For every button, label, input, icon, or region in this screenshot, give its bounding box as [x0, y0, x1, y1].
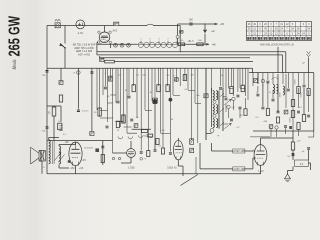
resistor R21	[157, 85, 160, 92]
wire HT rail upper	[212, 150, 253, 152]
svg-text:µF: µF	[302, 63, 305, 65]
wire comb of drops	[97, 68, 248, 153]
wire bus line 3	[114, 61, 253, 63]
capacitor C33	[154, 150, 157, 151]
sprinkle value label 13	[269, 92, 271, 94]
svg-text:500: 500	[198, 40, 202, 42]
wire IFT inner rail	[211, 88, 213, 127]
tube V1 mixer AK2	[99, 32, 110, 43]
pin circle V6 upper	[253, 150, 255, 152]
capacitor C43 dark	[289, 126, 292, 129]
wire tube V1 top stub	[104, 26, 106, 33]
wire mid link 1	[115, 120, 123, 122]
wire lower right link	[250, 128, 314, 137]
resistor R16	[230, 87, 233, 94]
label +4B lower	[211, 43, 216, 46]
ground symbol	[285, 174, 291, 182]
svg-text:30: 30	[107, 96, 110, 98]
wire det mid vertical	[204, 24, 206, 44]
switch S2 contact bump	[146, 24, 155, 26]
resistor R12	[297, 87, 300, 94]
svg-text:+50: +50	[65, 142, 70, 144]
coil L5 IFT1 winding b1	[213, 105, 215, 114]
wire right link lower	[253, 130, 314, 132]
terminal circle right	[261, 79, 265, 83]
label tube V5	[167, 167, 177, 170]
svg-text:0,1: 0,1	[136, 75, 140, 77]
pin circle V6 lower	[253, 157, 255, 159]
wire R5 stubs	[53, 106, 55, 141]
label R5	[48, 113, 51, 115]
svg-text:Mende: Mende	[13, 59, 18, 70]
resistor R24	[183, 75, 186, 81]
svg-text:AD7 +4 52: AD7 +4 52	[78, 54, 90, 57]
svg-text:L·V2: L·V2	[258, 170, 264, 173]
wire V6 top to PSU	[261, 131, 294, 142]
capacitor C4 on left rail	[46, 71, 49, 73]
component K5	[134, 124, 138, 128]
label C24	[105, 73, 107, 75]
IFT junction circle upper	[213, 100, 216, 103]
capacitor C44	[106, 126, 109, 128]
resistor R2a	[100, 58, 104, 61]
wire lower-left bus	[47, 140, 113, 142]
sprinkle value label 16	[161, 130, 165, 132]
wire x200 vertical	[199, 143, 201, 169]
junction dot b	[169, 98, 172, 101]
coil L7 choke	[283, 86, 285, 95]
junction electrolytic dot	[169, 98, 173, 102]
resistor R28	[161, 148, 164, 154]
transformer adjust arrows	[55, 153, 65, 163]
resistor R19	[98, 108, 101, 116]
label mid cap2	[158, 146, 162, 148]
label PSU value	[287, 156, 291, 158]
IFT core lines	[218, 91, 219, 129]
output transformer T1 primary	[59, 146, 61, 164]
wire bottom bus	[47, 173, 261, 175]
capacitor block C30	[174, 78, 178, 81]
label +C5	[82, 160, 87, 162]
capacitor C35 PSU	[307, 148, 310, 149]
wire table drop	[277, 47, 279, 73]
wire tube V1 to bus corner	[97, 43, 111, 52]
label R8 400	[180, 40, 184, 42]
wire x91 branch	[91, 68, 93, 131]
capacitor C36 x92	[90, 72, 93, 73]
svg-text:265 GW: 265 GW	[7, 16, 24, 57]
svg-text:1Pk: 1Pk	[42, 75, 47, 77]
wire x196 bottom	[195, 157, 197, 174]
resistor R37	[297, 123, 300, 130]
tube V4 output pentode	[69, 142, 82, 166]
svg-text:1M: 1M	[149, 92, 152, 94]
wire right rail	[313, 73, 315, 131]
wire V4 bottom stub	[75, 166, 77, 174]
resistor R20	[132, 85, 135, 92]
sprinkle value label 10	[217, 135, 220, 137]
svg-text:µF: µF	[302, 151, 305, 153]
svg-text:1000: 1000	[280, 92, 282, 98]
label R19	[94, 112, 97, 114]
capacitor C45	[239, 107, 242, 109]
svg-text:25: 25	[117, 130, 120, 132]
wire mains antenna stub	[308, 58, 310, 73]
svg-text:10k: 10k	[42, 131, 46, 133]
capacitor C42	[284, 126, 287, 127]
resistor R9 on lower rail	[197, 43, 203, 46]
coil L2 oscillator chain	[138, 42, 178, 47]
pin terminal circle b	[118, 157, 121, 160]
label mid 0,1	[136, 75, 140, 77]
resistor R29 PSU	[291, 142, 294, 150]
capacitor C27	[128, 96, 131, 98]
wire IFT links right	[223, 97, 246, 125]
capacitor C18	[261, 107, 264, 109]
label C9	[42, 131, 46, 133]
sprinkle value label 1	[142, 75, 146, 77]
wire x155 ext	[154, 99, 156, 149]
coil arrows right	[272, 77, 279, 79]
wire main bus	[47, 67, 253, 69]
wire left rail	[46, 26, 48, 174]
svg-text:0,5: 0,5	[166, 75, 170, 77]
svg-text:1·C85: 1·C85	[128, 167, 135, 170]
wire bus line 2 leg	[96, 52, 98, 55]
loudspeaker LS1	[31, 147, 46, 164]
svg-text:50k: 50k	[196, 95, 200, 97]
svg-text:+BL·5: +BL·5	[187, 41, 194, 43]
label C6	[82, 111, 89, 113]
tube data text block	[73, 44, 96, 57]
svg-text:50: 50	[94, 112, 97, 114]
IFT junction circle lower	[213, 114, 216, 117]
sprinkle value label 5	[107, 96, 110, 98]
svg-text:0,1: 0,1	[158, 146, 162, 148]
label lamp A52	[78, 32, 84, 35]
resistor R25	[122, 115, 125, 123]
wire HT rail lower	[200, 168, 253, 170]
trimmer capacitor C2	[120, 43, 124, 47]
resistor R27	[147, 151, 150, 157]
wire PSU links	[288, 150, 311, 174]
svg-text:3: 3	[149, 39, 151, 41]
wire V3 bottom	[121, 157, 131, 163]
wire left det vertical	[177, 24, 179, 44]
capacitor block C14	[254, 79, 258, 83]
svg-text:100Ω·A2: 100Ω·A2	[167, 167, 177, 170]
wire T1 primary bottom	[59, 165, 69, 169]
vertical value label 0	[295, 79, 297, 85]
wire right comb	[253, 73, 309, 131]
wire V6 top	[260, 138, 262, 145]
wire IFT bottom link	[206, 133, 212, 135]
sprinkle value label 3	[190, 75, 193, 77]
trimmer capacitor C3	[127, 43, 131, 47]
tube V3 driver triode	[127, 149, 136, 158]
svg-text:50 500 B: 50 500 B	[84, 148, 93, 150]
svg-text:+150V·13B: +150V·13B	[233, 150, 245, 153]
tube V1 pins	[97, 31, 111, 44]
wire switch branch	[64, 26, 66, 69]
mains antenna symbol	[307, 51, 311, 56]
capacitor C41 dark	[292, 153, 295, 156]
svg-text:50: 50	[49, 146, 52, 148]
switch contact table Wellenschalter	[247, 22, 312, 41]
svg-text:5k: 5k	[125, 90, 128, 92]
resistor R23	[122, 115, 125, 123]
resistor R2b elongated	[105, 60, 115, 63]
svg-text:+DB: +DB	[263, 121, 268, 123]
table caption	[260, 44, 294, 47]
pin terminal circle c	[140, 158, 143, 161]
svg-text:+150V·13B: +150V·13B	[233, 168, 245, 171]
wire detector upper rail	[178, 23, 218, 25]
svg-text:+4B: +4B	[211, 43, 216, 46]
label R9 500	[198, 40, 202, 42]
dark component K1	[153, 98, 158, 103]
capacitor C31	[101, 146, 104, 148]
capacitor C15	[266, 81, 269, 83]
variable resistor R15	[224, 99, 231, 112]
capacitor C34b	[169, 153, 172, 154]
svg-text:+µF: +µF	[211, 31, 216, 33]
trimmer capacitor C1	[114, 43, 118, 47]
svg-text:7: 7	[167, 39, 169, 41]
junction dot det	[204, 23, 205, 24]
svg-text:1: 1	[140, 39, 142, 41]
sprinkle value label 14	[117, 130, 120, 132]
capacitor block C29	[153, 100, 157, 103]
wire mid links	[100, 89, 246, 134]
label osc value	[187, 41, 194, 43]
svg-text:50: 50	[221, 75, 224, 77]
label IFT value	[231, 107, 235, 109]
label tube V3	[128, 167, 135, 170]
label +4B upper	[220, 23, 225, 26]
rail arrow upper	[215, 23, 218, 25]
tube V5 AF pentode	[174, 140, 184, 159]
coil L4 mains filter b	[277, 85, 279, 94]
resistor R22	[166, 85, 169, 92]
resistor R18	[241, 85, 244, 92]
rail label box upper	[233, 149, 246, 153]
svg-text:G: G	[73, 73, 75, 75]
label tube V6	[258, 170, 264, 173]
label tube V4 b	[79, 167, 84, 170]
svg-text:0,1: 0,1	[63, 134, 67, 136]
wire V3 left wire	[113, 152, 127, 154]
extra label bl1	[49, 146, 52, 148]
svg-text:4,5: 4,5	[300, 163, 304, 166]
sprinkle value label 12	[256, 92, 258, 94]
terminal circle K4	[275, 126, 278, 129]
capacitor C21	[219, 88, 222, 89]
barretter box	[295, 160, 309, 166]
wire right stub lower	[258, 73, 304, 115]
vertical value label 2	[280, 92, 282, 98]
wire top rail right segment	[154, 25, 180, 27]
svg-text:2000: 2000	[301, 92, 303, 98]
wire x78 branch	[77, 68, 79, 109]
label +uF psu	[297, 141, 302, 143]
svg-text:0,1: 0,1	[287, 156, 291, 158]
label right 0,1	[299, 107, 303, 109]
wire x211 vertical	[211, 143, 213, 151]
trimmer circle IFT right a	[227, 105, 230, 108]
vertical value label 1	[301, 92, 303, 98]
svg-text:+C8: +C8	[79, 167, 84, 170]
capacitor C17	[303, 85, 306, 87]
svg-text:µ: µ	[173, 75, 175, 77]
svg-text:Ω: Ω	[269, 92, 271, 94]
resistor R36	[276, 117, 279, 123]
wire oscillator vertical	[179, 26, 181, 53]
resistor R39	[147, 134, 153, 137]
svg-text:A·52: A·52	[78, 32, 84, 35]
capacitor C6	[77, 110, 80, 112]
extra label bl3	[43, 167, 45, 169]
capacitor C37	[272, 99, 275, 101]
label +g	[143, 136, 146, 138]
trimmer circle IFT right b	[232, 97, 235, 100]
svg-text:Dn: Dn	[58, 121, 62, 123]
rail end arrow right	[206, 43, 209, 45]
wire V4 top stub	[75, 142, 77, 145]
label mains uF	[302, 63, 305, 65]
dark component right of V5	[190, 139, 194, 145]
wire diagonal bottom	[181, 175, 198, 186]
svg-text:100: 100	[142, 75, 146, 77]
dark blob left of V4	[68, 160, 71, 163]
svg-text:0,5: 0,5	[255, 117, 259, 119]
svg-text:+g: +g	[143, 136, 146, 138]
capacitor C20 blk	[204, 94, 208, 98]
capacitor C23	[225, 98, 228, 100]
terminal circle det	[176, 35, 179, 38]
svg-text:0,2: 0,2	[236, 127, 240, 129]
resistor R5	[52, 107, 56, 116]
output transformer T1 secondary	[49, 140, 51, 164]
T1 core	[53, 141, 55, 164]
wire right bus	[249, 72, 314, 74]
wire x102 branch	[102, 141, 104, 166]
resistor R34	[307, 89, 310, 96]
capacitor C46	[230, 119, 233, 121]
sprinkle value label 15	[136, 117, 139, 119]
wire speaker leg	[40, 161, 43, 174]
capacitor C39	[297, 111, 300, 113]
label C11 500	[189, 20, 194, 22]
wire T1 primary top to V4	[49, 138, 76, 147]
svg-text:5000: 5000	[290, 117, 292, 123]
sprinkle value label 2	[166, 75, 170, 77]
capacitor C5 block	[59, 81, 63, 85]
capacitor C19	[277, 111, 280, 113]
coil L5 IFT1 winding c2	[216, 119, 218, 128]
wire bus line 2b	[100, 57, 250, 59]
resistor R41	[244, 109, 247, 116]
capacitor C25	[117, 101, 120, 103]
wire pin link	[252, 158, 254, 169]
tube socket circle	[210, 129, 214, 133]
coil L5 IFT1 winding c1	[213, 119, 215, 128]
electrolytic C12 polarized	[203, 30, 207, 34]
svg-text:+µ: +µ	[144, 158, 147, 160]
capacitor C26	[154, 100, 157, 102]
capacitor block C28	[153, 100, 157, 103]
capacitor C22	[236, 95, 239, 97]
tube V6 rectifier	[254, 145, 267, 166]
resistor R32	[302, 115, 305, 122]
pin terminal circle a	[112, 157, 115, 160]
coil taps with numbers	[140, 39, 178, 45]
antenna zigzag mark	[55, 19, 61, 21]
label right 0,5b	[255, 117, 259, 119]
resistor R40	[156, 139, 159, 145]
svg-text:500: 500	[189, 20, 194, 22]
label tube V4	[70, 167, 75, 170]
coil L5 IFT1 winding a1	[213, 91, 215, 100]
component row above V4	[84, 148, 99, 152]
dial lamp L1	[76, 20, 85, 29]
svg-text:2M: 2M	[190, 75, 193, 77]
label mid uF	[173, 75, 175, 77]
capacitor C16	[287, 89, 290, 91]
extra label bl2	[63, 134, 67, 136]
label uF det	[211, 31, 216, 33]
sprinkle value label 6	[125, 90, 128, 92]
svg-text:0,1Cm: 0,1Cm	[82, 111, 89, 113]
junction dot a	[153, 99, 156, 102]
resistor R6	[58, 123, 62, 130]
wire V5 top stub	[177, 138, 179, 140]
wire mid link 2	[132, 128, 151, 130]
callout line to tube V1	[98, 40, 108, 45]
wire bus line 1	[97, 52, 286, 73]
svg-text:0,5: 0,5	[161, 130, 165, 132]
resistor R1 on top rail	[114, 22, 119, 25]
svg-text:+C5: +C5	[82, 160, 87, 162]
label R6	[58, 121, 62, 123]
svg-text:5k: 5k	[171, 119, 174, 121]
coil L3 mains filter a	[273, 85, 275, 94]
resistor R4 dark	[109, 76, 113, 81]
svg-text:+g: +g	[217, 135, 220, 137]
IFT trimmer arrows	[220, 93, 225, 126]
antenna terminal A	[55, 23, 60, 28]
wire right extra stubs	[258, 74, 309, 112]
wire V3 top stub	[130, 141, 132, 149]
socket arc row	[118, 136, 153, 139]
svg-text:+B: +B	[136, 117, 139, 119]
title brand Mende (rotated)	[13, 59, 18, 70]
svg-text:400: 400	[180, 40, 184, 42]
capacitor C9 left	[46, 127, 49, 128]
dark component right of V5 b	[190, 148, 194, 153]
variable resistor R17	[224, 123, 231, 129]
svg-text:MW WELLENSCHALTER U.B: MW WELLENSCHALTER U.B	[260, 44, 294, 47]
wire top rail left segment	[47, 25, 114, 27]
resistor R14	[291, 111, 294, 118]
resistor R13	[291, 100, 294, 107]
coil L5 IFT1 winding b2	[216, 105, 218, 114]
wire V6 bottom stub	[260, 165, 262, 173]
label x78 circle	[73, 73, 75, 75]
svg-text:D: D	[43, 167, 45, 169]
capacitor C24	[104, 87, 107, 89]
svg-text:F: F	[105, 73, 107, 75]
